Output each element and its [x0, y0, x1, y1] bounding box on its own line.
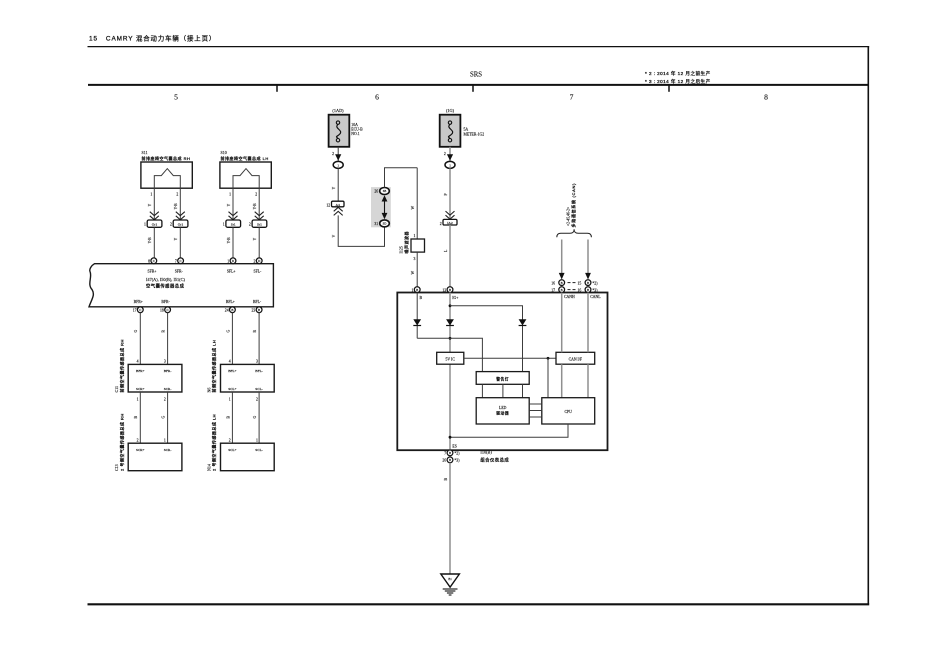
- CAN I/F box: [556, 352, 595, 364]
- svg-text:I125: I125: [399, 246, 404, 253]
- svg-text:31: 31: [374, 222, 378, 226]
- junction ES: [449, 436, 452, 439]
- svg-text:驱动器: 驱动器: [496, 411, 509, 416]
- svg-text:SFR+: SFR+: [148, 269, 157, 273]
- CPU box: [542, 398, 595, 424]
- svg-text:SCL+: SCL+: [228, 448, 236, 452]
- svg-text:IG+: IG+: [452, 296, 458, 300]
- svg-text:SRS: SRS: [470, 72, 482, 79]
- svg-text:B: B: [449, 458, 451, 462]
- wire S11 pin1: [153, 188, 155, 220]
- svg-text:METER-1G2: METER-1G2: [464, 132, 485, 136]
- svg-text:24: 24: [225, 309, 229, 313]
- wire CPU to ES: [450, 424, 568, 437]
- wire SB up and right: [385, 168, 418, 188]
- svg-text:* 2 : 2014 年 12 月之前生产: * 2 : 2014 年 12 月之前生产: [645, 70, 711, 77]
- wire Sr1 to sensor pin1: [232, 227, 234, 258]
- svg-text:2: 2: [444, 152, 446, 156]
- combination meter box: [397, 293, 607, 451]
- svg-text:SCR-: SCR-: [164, 387, 173, 391]
- junction to CPU: [547, 357, 550, 360]
- svg-text:N14: N14: [206, 464, 211, 471]
- No.2 side airbag sensor C13 box: [128, 443, 182, 471]
- arrow into connector: [447, 154, 453, 160]
- svg-text:15 CAMRY 混合动力车辆（接上页）: 15 CAMRY 混合动力车辆（接上页）: [89, 34, 216, 43]
- side airbag sensor C11 box: [128, 364, 182, 392]
- svg-text:前排座椅空气囊总成 LH: 前排座椅空气囊总成 LH: [221, 155, 269, 161]
- svg-text:4: 4: [229, 360, 231, 364]
- wire 18 to C11 pin3: [167, 313, 169, 365]
- svg-text:*3): *3): [592, 288, 598, 292]
- svg-text:SCR+: SCR+: [136, 387, 145, 391]
- wire B to diode1: [416, 293, 418, 339]
- svg-text:1: 1: [229, 397, 231, 401]
- squib S11: [154, 169, 180, 189]
- svg-text:2: 2: [256, 397, 258, 401]
- wire fuse 1G down: [449, 147, 451, 162]
- junction diode1/diode2: [449, 337, 452, 340]
- LED driver to CPU bus: [529, 403, 542, 405]
- svg-text:ECU-B: ECU-B: [351, 127, 363, 131]
- wire N6-2 to N14-1: [258, 392, 260, 443]
- svg-text:SFL+: SFL+: [227, 269, 236, 273]
- LED driver box: [476, 398, 529, 424]
- svg-text:2: 2: [253, 260, 255, 264]
- svg-text:前侧空气囊传感器总成 LH: 前侧空气囊传感器总成 LH: [211, 340, 217, 393]
- svg-text:7: 7: [175, 260, 177, 264]
- column band line: [88, 84, 869, 86]
- svg-text:C: C: [167, 308, 169, 312]
- column tick 6/7: [472, 85, 474, 92]
- svg-text:G: G: [226, 330, 230, 333]
- svg-text:SFL-: SFL-: [253, 269, 262, 273]
- wire ES to ground: [449, 463, 451, 574]
- svg-text:1: 1: [223, 223, 225, 227]
- svg-text:1: 1: [411, 288, 413, 292]
- svg-text:1: 1: [256, 439, 258, 443]
- regulator 5V IC box: [437, 352, 464, 364]
- svg-text:B: B: [449, 288, 451, 292]
- svg-text:23: 23: [252, 309, 256, 313]
- CAN brace: [557, 229, 592, 237]
- svg-text:1: 1: [229, 193, 231, 197]
- column tick 5/6: [276, 85, 278, 92]
- CAN I/F to CPU wires: [561, 364, 563, 398]
- svg-text:1: 1: [164, 439, 166, 443]
- svg-text:26: 26: [442, 459, 446, 463]
- svg-text:*3): *3): [454, 459, 460, 463]
- svg-text:4: 4: [137, 360, 139, 364]
- svg-text:前排座椅空气囊总成 RH: 前排座椅空气囊总成 RH: [142, 155, 191, 161]
- svg-text:BFR+: BFR+: [136, 369, 145, 373]
- wire oval to A4: [337, 168, 339, 201]
- svg-text:BFR-: BFR-: [161, 300, 170, 304]
- wire I125 to meter pin 1: [416, 252, 418, 287]
- svg-text:1: 1: [144, 223, 146, 227]
- svg-text:1: 1: [137, 397, 139, 401]
- svg-text:2: 2: [164, 397, 166, 401]
- svg-text:SCL+: SCL+: [228, 387, 236, 391]
- diode D2: [446, 319, 454, 325]
- wire Gr1 to sensor pin8: [153, 227, 155, 258]
- svg-text:* 3 : 2014 年 12 月之后生产: * 3 : 2014 年 12 月之后生产: [645, 78, 711, 85]
- svg-text:G: G: [253, 416, 257, 419]
- svg-text:2 号侧空气囊传感器总成 RH: 2 号侧空气囊传感器总成 RH: [118, 413, 124, 471]
- svg-text:12: 12: [326, 204, 330, 208]
- svg-text:Y: Y: [332, 187, 336, 190]
- svg-text:SCL-: SCL-: [255, 387, 263, 391]
- svg-text:B: B: [561, 288, 563, 292]
- svg-text:2: 2: [255, 193, 257, 197]
- svg-text:SFR-: SFR-: [175, 269, 184, 273]
- svg-text:W: W: [411, 271, 415, 275]
- svg-text:Y-B: Y-B: [174, 203, 178, 210]
- svg-text:E1: E1: [448, 577, 452, 581]
- wire Gr1 to sensor pin7: [179, 227, 181, 258]
- arrow into connector: [335, 154, 341, 160]
- lamp to driver connectors: [481, 384, 483, 397]
- fuse 1AD: [329, 115, 350, 147]
- svg-text:G: G: [162, 416, 166, 419]
- svg-text:B: B: [587, 281, 589, 285]
- svg-text:BFL+: BFL+: [226, 300, 235, 304]
- svg-text:警告灯: 警告灯: [496, 376, 509, 381]
- connector arrows up below A4: [334, 207, 343, 215]
- svg-text:5A: 5A: [464, 128, 469, 132]
- svg-text:3: 3: [164, 360, 166, 364]
- wire oval to IA2: [449, 168, 451, 219]
- harness connector oval 1AD: [333, 161, 343, 168]
- svg-text:B: B: [449, 451, 451, 455]
- svg-text:16: 16: [578, 288, 582, 292]
- svg-text:Gr1: Gr1: [152, 223, 158, 227]
- wire 23 to N6 pin3: [258, 313, 260, 365]
- wire N6-1 to N14-2: [231, 392, 233, 443]
- svg-text:1: 1: [227, 260, 229, 264]
- harness connector oval 1G: [445, 161, 455, 168]
- svg-text:2: 2: [440, 222, 442, 226]
- svg-text:G: G: [134, 330, 138, 333]
- svg-text:13: 13: [442, 288, 446, 292]
- svg-text:2: 2: [249, 223, 251, 227]
- CANL wire from bus: [587, 240, 589, 275]
- svg-text:Sr1: Sr1: [257, 223, 262, 227]
- svg-text:17: 17: [551, 288, 555, 292]
- svg-text:10A: 10A: [351, 123, 358, 127]
- connector arrows down above IA2: [446, 211, 455, 219]
- ground E1: [441, 574, 460, 587]
- svg-text:SCL-: SCL-: [255, 448, 263, 452]
- svg-text:Y: Y: [174, 238, 178, 241]
- squib S10: [233, 169, 259, 189]
- svg-text:C11: C11: [114, 386, 119, 393]
- svg-text:1: 1: [413, 234, 415, 238]
- wire C11-1 to C13-2: [139, 392, 141, 443]
- svg-text:Sr1: Sr1: [231, 223, 236, 227]
- svg-text:Y-B: Y-B: [148, 237, 152, 244]
- svg-text:18: 18: [160, 309, 164, 313]
- svg-text:空气囊传感器总成: 空气囊传感器总成: [146, 282, 185, 289]
- svg-text:B: B: [231, 308, 233, 312]
- svg-text:B: B: [416, 288, 418, 292]
- svg-text:C: C: [153, 259, 155, 263]
- svg-text:2: 2: [229, 439, 231, 443]
- svg-text:1: 1: [150, 193, 152, 197]
- svg-text:S10: S10: [221, 150, 227, 155]
- svg-text:7: 7: [570, 93, 574, 102]
- diode D3: [519, 319, 527, 325]
- wire Sr1 to sensor pin2: [258, 227, 260, 258]
- noise filter I125 box: [411, 239, 425, 252]
- connector arrows above Gr1/Sr1: [150, 212, 264, 220]
- svg-text:C: C: [139, 308, 141, 312]
- svg-text:Y-B: Y-B: [227, 237, 231, 244]
- wire S10 pin1: [232, 188, 234, 220]
- airbag assembly S11 box: [141, 162, 192, 188]
- svg-text:V: V: [332, 235, 336, 238]
- svg-text:2: 2: [332, 152, 334, 156]
- CANH wire from bus: [561, 240, 563, 275]
- svg-text:C: C: [180, 259, 182, 263]
- svg-text:CANL: CANL: [590, 295, 601, 299]
- svg-text:8: 8: [148, 260, 150, 264]
- airbag assembly S10 box: [220, 162, 271, 188]
- svg-text:Y: Y: [148, 204, 152, 207]
- svg-text:*2): *2): [592, 281, 598, 285]
- dashes row1: [568, 282, 571, 284]
- svg-text:LED: LED: [499, 406, 507, 410]
- svg-text:Gr1: Gr1: [178, 223, 184, 227]
- svg-text:IA2: IA2: [447, 221, 453, 225]
- junction IG branch: [449, 304, 452, 307]
- svg-text:(1G): (1G): [446, 108, 455, 113]
- svg-text:26: 26: [374, 190, 378, 194]
- svg-text:7: 7: [444, 452, 446, 456]
- svg-text:5: 5: [174, 93, 178, 102]
- CANL internal wire: [587, 293, 589, 353]
- shielded connector block: [371, 187, 391, 227]
- svg-text:SCR+: SCR+: [136, 448, 145, 452]
- svg-text:2: 2: [137, 439, 139, 443]
- CANH internal wire: [561, 293, 563, 353]
- svg-text:C13: C13: [114, 464, 119, 471]
- svg-text:5V IC: 5V IC: [446, 357, 456, 361]
- svg-text:BFL+: BFL+: [228, 369, 236, 373]
- svg-text:3: 3: [413, 257, 415, 261]
- fuse 1G: [440, 115, 461, 147]
- svg-text:Y: Y: [227, 204, 231, 207]
- airbag sensor assembly box (torn left edge): [89, 264, 273, 307]
- svg-text:噪声滤波器: 噪声滤波器: [403, 231, 409, 254]
- svg-text:N6: N6: [206, 388, 211, 393]
- svg-text:16: 16: [551, 281, 555, 285]
- wire 17 to C11 pin4: [139, 313, 141, 365]
- svg-text:Y: Y: [253, 238, 257, 241]
- svg-text:2: 2: [170, 223, 172, 227]
- svg-text:I10(B): I10(B): [480, 449, 492, 454]
- svg-text:组合仪表总成: 组合仪表总成: [480, 456, 509, 463]
- svg-text:SB: SB: [383, 189, 387, 193]
- wire 24 to N6 pin4: [231, 313, 233, 365]
- svg-text:CPU: CPU: [565, 410, 573, 414]
- column tick 7/8: [668, 85, 670, 92]
- svg-text:3: 3: [256, 360, 258, 364]
- svg-text:BFL-: BFL-: [255, 369, 263, 373]
- diode D1: [413, 319, 421, 325]
- wire C11-2 to C13-1: [167, 392, 169, 443]
- bottom page border: [88, 603, 870, 605]
- warning lamp box: [476, 372, 529, 385]
- double arrow between SB and SD: [384, 198, 386, 218]
- svg-text:6: 6: [375, 93, 379, 102]
- svg-text:Y-B: Y-B: [253, 203, 257, 210]
- svg-text:17: 17: [133, 309, 137, 313]
- wire S11 pin2: [179, 188, 181, 220]
- svg-text:ES: ES: [452, 445, 456, 449]
- svg-text:前侧空气囊传感器总成 RH: 前侧空气囊传感器总成 RH: [118, 339, 124, 392]
- wire branch to diode3: [450, 306, 523, 372]
- svg-text:多路通信系统 (CAN): 多路通信系统 (CAN): [570, 183, 576, 228]
- wire IA2 to meter pin 13: [449, 225, 451, 287]
- svg-text:(1AD): (1AD): [332, 108, 344, 113]
- svg-text:NO.1: NO.1: [351, 132, 359, 136]
- svg-text:SCR-: SCR-: [164, 448, 173, 452]
- svg-text:*2): *2): [454, 452, 460, 456]
- svg-text:8: 8: [764, 93, 768, 102]
- svg-text:2 号侧空气囊传感器总成 LH: 2 号侧空气囊传感器总成 LH: [211, 414, 217, 471]
- svg-text:BFR-: BFR-: [164, 369, 173, 373]
- svg-text:CAN I/F: CAN I/F: [569, 357, 582, 361]
- svg-text:A4: A4: [336, 203, 341, 207]
- svg-text:15: 15: [578, 281, 582, 285]
- svg-text:SD: SD: [383, 222, 387, 226]
- svg-text:B: B: [587, 288, 589, 292]
- svg-text:B: B: [561, 281, 563, 285]
- svg-text:P: P: [444, 193, 448, 195]
- header underline: [88, 46, 870, 48]
- svg-text:BFL-: BFL-: [253, 300, 262, 304]
- dashes row2: [568, 289, 571, 291]
- wire down to noise filter: [416, 168, 418, 239]
- No.2 side airbag sensor N14 box: [221, 443, 275, 471]
- wire IG internal: [449, 293, 451, 353]
- svg-text:2: 2: [176, 193, 178, 197]
- wire A4 down-right-up to SD: [338, 215, 384, 246]
- wire diode junction to warning lamp: [417, 338, 482, 371]
- side airbag sensor N6 box: [221, 364, 275, 392]
- right page border: [867, 47, 869, 605]
- svg-text:W: W: [411, 206, 415, 210]
- svg-text:CANH: CANH: [564, 295, 575, 299]
- svg-text:BFR+: BFR+: [134, 300, 143, 304]
- wire fuse 1AD down: [337, 147, 339, 162]
- svg-text:B: B: [258, 308, 260, 312]
- svg-text:S11: S11: [142, 150, 148, 155]
- wire 5VIC to CAN I/F: [464, 357, 556, 359]
- wire S10 pin2: [258, 188, 260, 220]
